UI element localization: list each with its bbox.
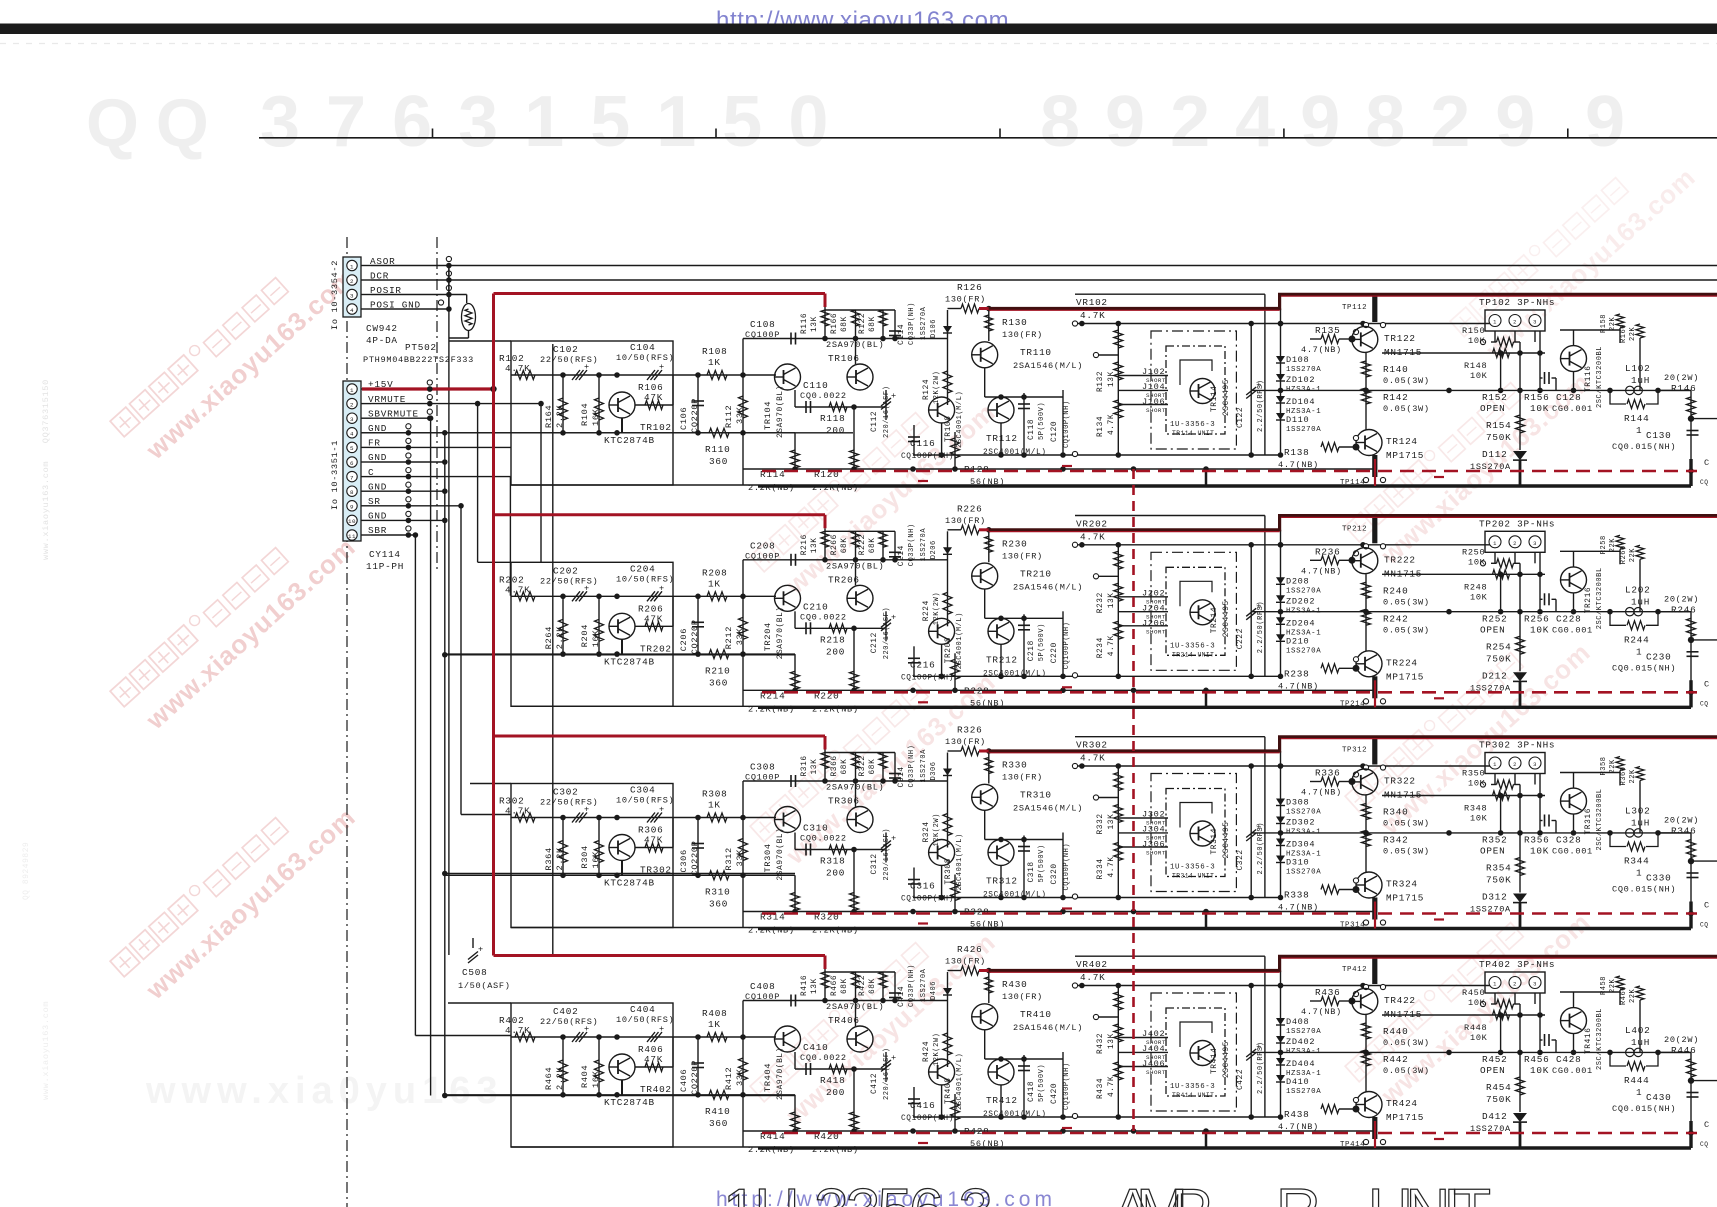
svg-text:R158: R158 bbox=[1600, 314, 1608, 333]
svg-text:4.7K: 4.7K bbox=[1080, 753, 1105, 764]
svg-text:TR212: TR212 bbox=[986, 654, 1018, 665]
svg-text:R148: R148 bbox=[1464, 361, 1487, 371]
svg-text:R156: R156 bbox=[1524, 392, 1549, 403]
svg-text:TR314: TR314 bbox=[1211, 828, 1219, 855]
svg-text:TR224: TR224 bbox=[1386, 657, 1418, 668]
svg-text:2: 2 bbox=[1513, 981, 1517, 988]
svg-text:CG0.001: CG0.001 bbox=[1552, 847, 1593, 857]
svg-text:R334: R334 bbox=[1097, 858, 1105, 879]
svg-text:UNIT: UNIT bbox=[1368, 1177, 1501, 1207]
svg-text:130(FR): 130(FR) bbox=[945, 516, 986, 526]
svg-text:TR204: TR204 bbox=[763, 622, 773, 651]
svg-text:2SC4001(M/L): 2SC4001(M/L) bbox=[956, 1053, 964, 1110]
svg-text:TR102: TR102 bbox=[640, 422, 672, 433]
svg-text:R316: R316 bbox=[801, 755, 809, 776]
svg-text:22K: 22K bbox=[1609, 978, 1617, 993]
svg-text:CY114: CY114 bbox=[369, 549, 401, 560]
svg-text:22/50(RFS): 22/50(RFS) bbox=[540, 576, 598, 586]
svg-text:4.7(NB): 4.7(NB) bbox=[1278, 460, 1319, 470]
svg-text:C508: C508 bbox=[462, 967, 487, 978]
svg-text:C210: C210 bbox=[803, 601, 828, 612]
svg-text:7: 7 bbox=[350, 474, 354, 481]
svg-text:2: 2 bbox=[350, 278, 354, 285]
svg-text:+: + bbox=[659, 1024, 665, 1034]
svg-text:CQ100P(NH): CQ100P(NH) bbox=[1063, 1062, 1071, 1110]
svg-text:C428: C428 bbox=[1556, 1054, 1581, 1065]
svg-text:2SC4495: 2SC4495 bbox=[1223, 600, 1231, 637]
svg-text:R222: R222 bbox=[859, 534, 867, 555]
svg-text:68K: 68K bbox=[869, 537, 877, 553]
svg-text:1SS270A: 1SS270A bbox=[1286, 1088, 1321, 1096]
svg-text:C408: C408 bbox=[750, 981, 775, 992]
svg-text:CQ: CQ bbox=[1700, 922, 1708, 929]
svg-text:C420: C420 bbox=[1051, 1083, 1059, 1104]
svg-text:ZD202: ZD202 bbox=[1286, 596, 1315, 606]
svg-text:2SA970(BL): 2SA970(BL) bbox=[777, 606, 785, 659]
svg-text:TR302: TR302 bbox=[640, 865, 672, 876]
svg-text:CQ100P(NH): CQ100P(NH) bbox=[1063, 622, 1071, 670]
svg-text:13K: 13K bbox=[811, 978, 819, 994]
svg-text:R254: R254 bbox=[1486, 641, 1511, 652]
svg-text:CQ220P: CQ220P bbox=[690, 1060, 700, 1095]
svg-text:10K: 10K bbox=[1530, 1065, 1549, 1076]
svg-text:TR222: TR222 bbox=[1384, 554, 1416, 565]
svg-text:R142: R142 bbox=[1383, 392, 1408, 403]
svg-text:1: 1 bbox=[350, 263, 354, 270]
svg-text:R452: R452 bbox=[1482, 1054, 1507, 1065]
svg-text:130(FR): 130(FR) bbox=[1002, 773, 1043, 783]
svg-text:CQ100P(NH): CQ100P(NH) bbox=[1063, 400, 1071, 448]
svg-text:47K: 47K bbox=[644, 1054, 663, 1065]
svg-text:0.05(3W): 0.05(3W) bbox=[1383, 819, 1430, 829]
svg-text:VR302: VR302 bbox=[1076, 740, 1108, 751]
svg-text:2SA970(BL): 2SA970(BL) bbox=[826, 1002, 884, 1012]
svg-text:www.xia0yu163: www.xia0yu163 bbox=[145, 1070, 504, 1112]
svg-text:R246: R246 bbox=[1671, 604, 1696, 615]
svg-text:QQ 89249829: QQ 89249829 bbox=[23, 842, 31, 900]
svg-text:1: 1 bbox=[1493, 540, 1497, 547]
svg-text:R230: R230 bbox=[1002, 538, 1027, 549]
svg-text:TP214: TP214 bbox=[1340, 700, 1365, 708]
svg-text:TR316: TR316 bbox=[1585, 808, 1593, 835]
svg-text:10K: 10K bbox=[1470, 814, 1488, 824]
svg-text:R258: R258 bbox=[1600, 535, 1608, 554]
svg-text:TP114: TP114 bbox=[1340, 479, 1365, 487]
svg-text:R304: R304 bbox=[580, 845, 590, 868]
svg-text:R238: R238 bbox=[1284, 668, 1309, 679]
svg-text:2SC/KTC3200BL: 2SC/KTC3200BL bbox=[1596, 788, 1604, 850]
svg-text:CQ33P(NH): CQ33P(NH) bbox=[908, 964, 916, 1007]
svg-text:1SS270A: 1SS270A bbox=[1286, 587, 1321, 595]
svg-text:TR402: TR402 bbox=[640, 1084, 672, 1095]
svg-text:+: + bbox=[891, 612, 897, 622]
svg-text:TR414 UNIT: TR414 UNIT bbox=[1172, 1092, 1214, 1099]
svg-text:68K: 68K bbox=[841, 978, 849, 994]
svg-text:TR412: TR412 bbox=[986, 1095, 1018, 1106]
svg-text:4.7K: 4.7K bbox=[1108, 856, 1116, 877]
svg-text:R330: R330 bbox=[1002, 760, 1027, 771]
svg-text:20(2W): 20(2W) bbox=[1664, 816, 1699, 826]
svg-text:R138: R138 bbox=[1284, 447, 1309, 458]
svg-text:C112: C112 bbox=[871, 411, 879, 432]
svg-text:2.2/50(RFS): 2.2/50(RFS) bbox=[1257, 380, 1265, 432]
svg-text:16K: 16K bbox=[591, 1070, 601, 1088]
svg-text:1SS270A: 1SS270A bbox=[1286, 869, 1321, 877]
svg-text:4.7(NB): 4.7(NB) bbox=[1301, 566, 1342, 576]
svg-text:2SA970(BL): 2SA970(BL) bbox=[826, 783, 884, 793]
svg-text:22/50(RFS): 22/50(RFS) bbox=[540, 355, 598, 365]
svg-text:D206: D206 bbox=[930, 540, 938, 559]
svg-text:130(FR): 130(FR) bbox=[945, 957, 986, 967]
svg-text:TR216: TR216 bbox=[1585, 587, 1593, 614]
svg-text:R234: R234 bbox=[1097, 637, 1105, 658]
svg-text:D210: D210 bbox=[1286, 636, 1309, 646]
svg-text:C118: C118 bbox=[1028, 419, 1036, 440]
svg-text:R460: R460 bbox=[1620, 986, 1628, 1005]
svg-text:0.05(3W): 0.05(3W) bbox=[1383, 625, 1430, 635]
svg-text:R464: R464 bbox=[544, 1067, 554, 1090]
svg-text:R126: R126 bbox=[957, 282, 982, 293]
svg-text:TR310: TR310 bbox=[1020, 790, 1052, 801]
svg-text:R336: R336 bbox=[1315, 768, 1340, 779]
svg-text:R130: R130 bbox=[1002, 317, 1027, 328]
svg-text:13K: 13K bbox=[1108, 814, 1116, 830]
svg-text:R252: R252 bbox=[1482, 613, 1507, 624]
svg-text:220/16(ASF): 220/16(ASF) bbox=[883, 828, 891, 880]
svg-text:1: 1 bbox=[1636, 425, 1642, 436]
svg-text:0.05(3W): 0.05(3W) bbox=[1383, 847, 1430, 857]
svg-text:R410: R410 bbox=[705, 1106, 730, 1117]
svg-text:TP302 3P-NHs: TP302 3P-NHs bbox=[1479, 740, 1555, 751]
svg-text:R436: R436 bbox=[1315, 987, 1340, 998]
svg-text:22K: 22K bbox=[1629, 326, 1637, 341]
svg-text:R324: R324 bbox=[923, 821, 931, 842]
svg-text:4.7(NB): 4.7(NB) bbox=[1301, 788, 1342, 798]
svg-text:13K: 13K bbox=[1108, 1033, 1116, 1049]
svg-text:TP312: TP312 bbox=[1342, 747, 1367, 755]
svg-text:TR406: TR406 bbox=[828, 1015, 860, 1026]
svg-text:4.7K: 4.7K bbox=[505, 1025, 530, 1036]
svg-text:KTC2874B: KTC2874B bbox=[604, 878, 655, 889]
svg-text:R248: R248 bbox=[1464, 582, 1487, 592]
svg-text:R422: R422 bbox=[859, 975, 867, 996]
svg-text:33K: 33K bbox=[735, 406, 745, 424]
svg-text:10K: 10K bbox=[1530, 403, 1549, 414]
svg-text:R448: R448 bbox=[1464, 1023, 1487, 1033]
svg-text:C328: C328 bbox=[1556, 835, 1581, 846]
svg-text:4: 4 bbox=[350, 431, 354, 438]
svg-text:CQ0.015(NH): CQ0.015(NH) bbox=[1612, 663, 1676, 673]
svg-text:376315150: 376315150 bbox=[260, 82, 854, 162]
svg-text:R432: R432 bbox=[1097, 1033, 1105, 1054]
svg-text:R112: R112 bbox=[724, 405, 734, 428]
svg-text:C414: C414 bbox=[898, 986, 906, 1007]
svg-text:5P(500V): 5P(500V) bbox=[1038, 402, 1046, 440]
svg-text:2.2K: 2.2K bbox=[555, 626, 565, 650]
svg-text:R204: R204 bbox=[580, 624, 590, 647]
svg-text:+: + bbox=[659, 805, 665, 815]
svg-text:CQ100P: CQ100P bbox=[745, 330, 780, 340]
svg-text:1SS270A: 1SS270A bbox=[920, 306, 928, 340]
svg-text:4.7(NB): 4.7(NB) bbox=[1278, 1122, 1319, 1132]
svg-text:ZD304: ZD304 bbox=[1286, 840, 1315, 850]
svg-text:CQ0.0022: CQ0.0022 bbox=[800, 391, 847, 401]
svg-text:1K: 1K bbox=[708, 800, 721, 811]
svg-text:ZD402: ZD402 bbox=[1286, 1037, 1315, 1047]
svg-text:3: 3 bbox=[350, 416, 354, 423]
svg-text:R210: R210 bbox=[705, 665, 730, 676]
svg-text:R160: R160 bbox=[1620, 324, 1628, 343]
svg-text:J106: J106 bbox=[1142, 397, 1165, 407]
svg-text:2.2K: 2.2K bbox=[555, 1066, 565, 1090]
svg-text:130(FR): 130(FR) bbox=[1002, 992, 1043, 1002]
svg-text:10K: 10K bbox=[1470, 1033, 1488, 1043]
svg-text:C330: C330 bbox=[1646, 873, 1671, 884]
svg-text:220/16(ASF): 220/16(ASF) bbox=[883, 1048, 891, 1100]
svg-text:750K: 750K bbox=[1486, 653, 1511, 664]
svg-text:PTH9M04BB222TS2F333: PTH9M04BB222TS2F333 bbox=[363, 355, 474, 365]
svg-text:C104: C104 bbox=[630, 342, 655, 353]
svg-text:2SA970(BL): 2SA970(BL) bbox=[777, 385, 785, 438]
svg-text:+: + bbox=[659, 362, 665, 372]
svg-text:R154: R154 bbox=[1486, 420, 1511, 431]
svg-text:R256: R256 bbox=[1524, 613, 1549, 624]
svg-text:1uH: 1uH bbox=[1631, 375, 1650, 386]
svg-text:1SS270A: 1SS270A bbox=[1286, 647, 1321, 655]
svg-text:2SC4001(M/L): 2SC4001(M/L) bbox=[983, 892, 1047, 900]
svg-text:TR422: TR422 bbox=[1384, 995, 1416, 1006]
svg-text:4.7(NB): 4.7(NB) bbox=[1278, 681, 1319, 691]
svg-text:TR306: TR306 bbox=[828, 796, 860, 807]
svg-text:J306: J306 bbox=[1142, 840, 1165, 850]
svg-text:D408: D408 bbox=[1286, 1017, 1309, 1027]
svg-text:CQ100P(NH): CQ100P(NH) bbox=[1063, 843, 1071, 891]
svg-text:MP1715: MP1715 bbox=[1386, 893, 1424, 904]
svg-text:1SS270A: 1SS270A bbox=[920, 749, 928, 783]
svg-text:89249829: 89249829 bbox=[1040, 82, 1560, 162]
svg-text:4.7K: 4.7K bbox=[1108, 635, 1116, 656]
svg-text:R438: R438 bbox=[1284, 1109, 1309, 1120]
svg-text:R218: R218 bbox=[820, 634, 845, 645]
svg-text:CQ100P(NH): CQ100P(NH) bbox=[901, 1115, 954, 1123]
svg-text:D106: D106 bbox=[930, 319, 938, 338]
svg-text:R342: R342 bbox=[1383, 835, 1408, 846]
svg-text:6: 6 bbox=[350, 460, 354, 467]
svg-text:D406: D406 bbox=[930, 981, 938, 1000]
svg-text:68K: 68K bbox=[869, 316, 877, 332]
svg-text:R166: R166 bbox=[831, 313, 839, 334]
svg-text:CQ100P(NH): CQ100P(NH) bbox=[901, 674, 954, 682]
svg-text:C106: C106 bbox=[679, 407, 689, 430]
svg-text:C108: C108 bbox=[750, 319, 775, 330]
svg-text:R442: R442 bbox=[1383, 1054, 1408, 1065]
svg-text:1K: 1K bbox=[708, 357, 721, 368]
svg-text:R144: R144 bbox=[1624, 413, 1649, 424]
svg-text:1: 1 bbox=[1493, 761, 1497, 768]
svg-text:0.05(3W): 0.05(3W) bbox=[1383, 1066, 1430, 1076]
svg-text:2SC4001(M/L): 2SC4001(M/L) bbox=[956, 391, 964, 448]
svg-text:TR112: TR112 bbox=[986, 433, 1018, 444]
svg-text:TR210: TR210 bbox=[1020, 568, 1052, 579]
svg-text:13K: 13K bbox=[1108, 371, 1116, 387]
svg-text:4.7K: 4.7K bbox=[505, 363, 530, 374]
svg-text:SHORT: SHORT bbox=[1146, 407, 1166, 414]
svg-text:TR214 UNIT: TR214 UNIT bbox=[1172, 651, 1214, 658]
svg-text:TR104: TR104 bbox=[763, 401, 773, 430]
svg-text:5: 5 bbox=[350, 445, 354, 452]
svg-text:L202: L202 bbox=[1625, 584, 1650, 595]
svg-text:R450: R450 bbox=[1462, 988, 1485, 998]
svg-text:D212: D212 bbox=[1482, 670, 1507, 681]
svg-text:OPEN: OPEN bbox=[1480, 403, 1505, 414]
svg-text:R308: R308 bbox=[702, 789, 727, 800]
svg-text:10/50(RFS): 10/50(RFS) bbox=[616, 796, 674, 806]
svg-text:TR202: TR202 bbox=[640, 643, 672, 654]
svg-text:Io 10-3354-2: Io 10-3354-2 bbox=[330, 260, 340, 330]
svg-text:5P(500V): 5P(500V) bbox=[1038, 844, 1046, 882]
svg-text:750K: 750K bbox=[1486, 1094, 1511, 1105]
svg-text:68K: 68K bbox=[841, 759, 849, 775]
svg-text:C316: C316 bbox=[910, 881, 935, 892]
svg-text:4.7K: 4.7K bbox=[1080, 972, 1105, 983]
svg-text:TP212: TP212 bbox=[1342, 525, 1367, 533]
svg-text:TR424: TR424 bbox=[1386, 1098, 1418, 1109]
svg-text:200: 200 bbox=[826, 646, 845, 657]
svg-text:SHORT: SHORT bbox=[1146, 628, 1166, 635]
svg-text:C322: C322 bbox=[1237, 849, 1245, 870]
svg-text:OPEN: OPEN bbox=[1480, 624, 1505, 635]
svg-text:20(2W): 20(2W) bbox=[1664, 1035, 1699, 1045]
svg-text:R348: R348 bbox=[1464, 804, 1487, 814]
svg-text:+: + bbox=[891, 1053, 897, 1063]
svg-text:10K: 10K bbox=[1530, 624, 1549, 635]
svg-text:1: 1 bbox=[1636, 646, 1642, 657]
svg-text:R208: R208 bbox=[702, 567, 727, 578]
svg-text:1SS270A: 1SS270A bbox=[920, 968, 928, 1002]
svg-text:R146: R146 bbox=[1671, 383, 1696, 394]
svg-text:68K: 68K bbox=[841, 537, 849, 553]
svg-text:TR416: TR416 bbox=[1585, 1028, 1593, 1055]
svg-text:CG0.001: CG0.001 bbox=[1552, 404, 1593, 414]
svg-text:D110: D110 bbox=[1286, 415, 1309, 425]
svg-text:C208: C208 bbox=[750, 540, 775, 551]
svg-text:R140: R140 bbox=[1383, 364, 1408, 375]
svg-text:R346: R346 bbox=[1671, 826, 1696, 837]
svg-text:2.2/50(RFS): 2.2/50(RFS) bbox=[1257, 1042, 1265, 1094]
svg-text:5P(500V): 5P(500V) bbox=[1038, 1064, 1046, 1102]
svg-text:20(2W): 20(2W) bbox=[1664, 373, 1699, 383]
svg-text:TR110: TR110 bbox=[1020, 347, 1052, 358]
svg-text:CQ0.0022: CQ0.0022 bbox=[800, 612, 847, 622]
svg-text:R354: R354 bbox=[1486, 863, 1511, 874]
svg-text:R152: R152 bbox=[1482, 392, 1507, 403]
svg-text:CQ0.015(NH): CQ0.015(NH) bbox=[1612, 442, 1676, 452]
svg-text:2.2K: 2.2K bbox=[555, 404, 565, 428]
svg-text:R426: R426 bbox=[957, 944, 982, 955]
svg-text:2SC4001(M/L): 2SC4001(M/L) bbox=[956, 612, 964, 669]
svg-text:TP102 3P-NHs: TP102 3P-NHs bbox=[1479, 297, 1555, 308]
svg-text:CQ100P(NH): CQ100P(NH) bbox=[901, 896, 954, 904]
svg-text:0.05(3W): 0.05(3W) bbox=[1383, 376, 1430, 386]
svg-text:2SC4001(M/L): 2SC4001(M/L) bbox=[983, 449, 1047, 457]
svg-text:16K: 16K bbox=[591, 408, 601, 426]
svg-text:1: 1 bbox=[1493, 319, 1497, 326]
svg-text:2SC4001(M/L): 2SC4001(M/L) bbox=[983, 670, 1047, 678]
svg-text:10/50(RFS): 10/50(RFS) bbox=[616, 1015, 674, 1025]
svg-text:ZD404: ZD404 bbox=[1286, 1059, 1315, 1069]
svg-text:2.2/50(RFS): 2.2/50(RFS) bbox=[1257, 601, 1265, 653]
svg-text:8: 8 bbox=[350, 489, 354, 496]
svg-text:D306: D306 bbox=[930, 761, 938, 780]
svg-text:www.xiaoyu163.com: www.xiaoyu163.com bbox=[41, 1001, 51, 1100]
svg-text:R366: R366 bbox=[831, 755, 839, 776]
svg-text:13K: 13K bbox=[1108, 592, 1116, 608]
svg-text:11: 11 bbox=[348, 533, 356, 540]
svg-text:CQ100P(NH): CQ100P(NH) bbox=[901, 453, 954, 461]
svg-text:4.7(NB): 4.7(NB) bbox=[1301, 345, 1342, 355]
svg-text:13K: 13K bbox=[811, 759, 819, 775]
svg-text:2SC/KTC3200BL: 2SC/KTC3200BL bbox=[1596, 346, 1604, 408]
svg-text:R444: R444 bbox=[1624, 1075, 1649, 1086]
svg-text:1SS270A: 1SS270A bbox=[1286, 809, 1321, 817]
svg-text:R364: R364 bbox=[544, 847, 554, 870]
svg-text:4.7K: 4.7K bbox=[1108, 414, 1116, 435]
svg-text:R118: R118 bbox=[820, 413, 845, 424]
svg-text:360: 360 bbox=[709, 456, 728, 467]
svg-text:10/50(RFS): 10/50(RFS) bbox=[616, 574, 674, 584]
svg-text:2: 2 bbox=[350, 401, 354, 408]
svg-text:R244: R244 bbox=[1624, 634, 1649, 645]
svg-text:D312: D312 bbox=[1482, 892, 1507, 903]
svg-text:R122: R122 bbox=[859, 313, 867, 334]
svg-text:VR402: VR402 bbox=[1076, 959, 1108, 970]
svg-text:2SC/KTC3200BL: 2SC/KTC3200BL bbox=[1596, 567, 1604, 629]
svg-text:D310: D310 bbox=[1286, 858, 1309, 868]
svg-text:TP112: TP112 bbox=[1342, 304, 1367, 312]
svg-text:R360: R360 bbox=[1620, 766, 1628, 785]
svg-text:2SC4495: 2SC4495 bbox=[1223, 821, 1231, 858]
svg-text:Io 10-3351-1: Io 10-3351-1 bbox=[330, 440, 340, 510]
svg-text:0.05(3W): 0.05(3W) bbox=[1383, 597, 1430, 607]
svg-text:R458: R458 bbox=[1600, 976, 1608, 995]
svg-text:R326: R326 bbox=[957, 725, 982, 736]
svg-text:R424: R424 bbox=[923, 1041, 931, 1062]
svg-text:TR312: TR312 bbox=[986, 876, 1018, 887]
svg-text:220/16(ASF): 220/16(ASF) bbox=[883, 607, 891, 659]
svg-text:TR214: TR214 bbox=[1211, 607, 1219, 634]
svg-text:VR202: VR202 bbox=[1076, 518, 1108, 529]
svg-text:2SA1546(M/L): 2SA1546(M/L) bbox=[1013, 804, 1083, 814]
svg-text:130(FR): 130(FR) bbox=[945, 295, 986, 305]
svg-text:22K: 22K bbox=[1629, 988, 1637, 1003]
svg-text:11P-PH: 11P-PH bbox=[366, 561, 404, 572]
svg-text:0.05(3W): 0.05(3W) bbox=[1383, 404, 1430, 414]
svg-text:R224: R224 bbox=[923, 600, 931, 621]
svg-text:1U-3356-3: 1U-3356-3 bbox=[1170, 421, 1215, 429]
svg-text:C310: C310 bbox=[803, 823, 828, 834]
svg-text:2SC4001(M/L): 2SC4001(M/L) bbox=[983, 1111, 1047, 1119]
svg-text:4.7K: 4.7K bbox=[1080, 310, 1105, 321]
svg-text:www.xiaoyu163.com QQ37631515: www.xiaoyu163.com QQ376315150 bbox=[41, 379, 51, 560]
svg-text:D112: D112 bbox=[1482, 449, 1507, 460]
svg-text:220/16(ASF): 220/16(ASF) bbox=[883, 386, 891, 438]
svg-text:1K: 1K bbox=[708, 1019, 721, 1030]
svg-text:R264: R264 bbox=[544, 626, 554, 649]
svg-text:2.2/50(RFS): 2.2/50(RFS) bbox=[1257, 822, 1265, 874]
svg-text:CQ0.0022: CQ0.0022 bbox=[800, 834, 847, 844]
svg-text:1U-3356-3: 1U-3356-3 bbox=[1170, 642, 1215, 650]
svg-text:22K: 22K bbox=[1609, 316, 1617, 331]
